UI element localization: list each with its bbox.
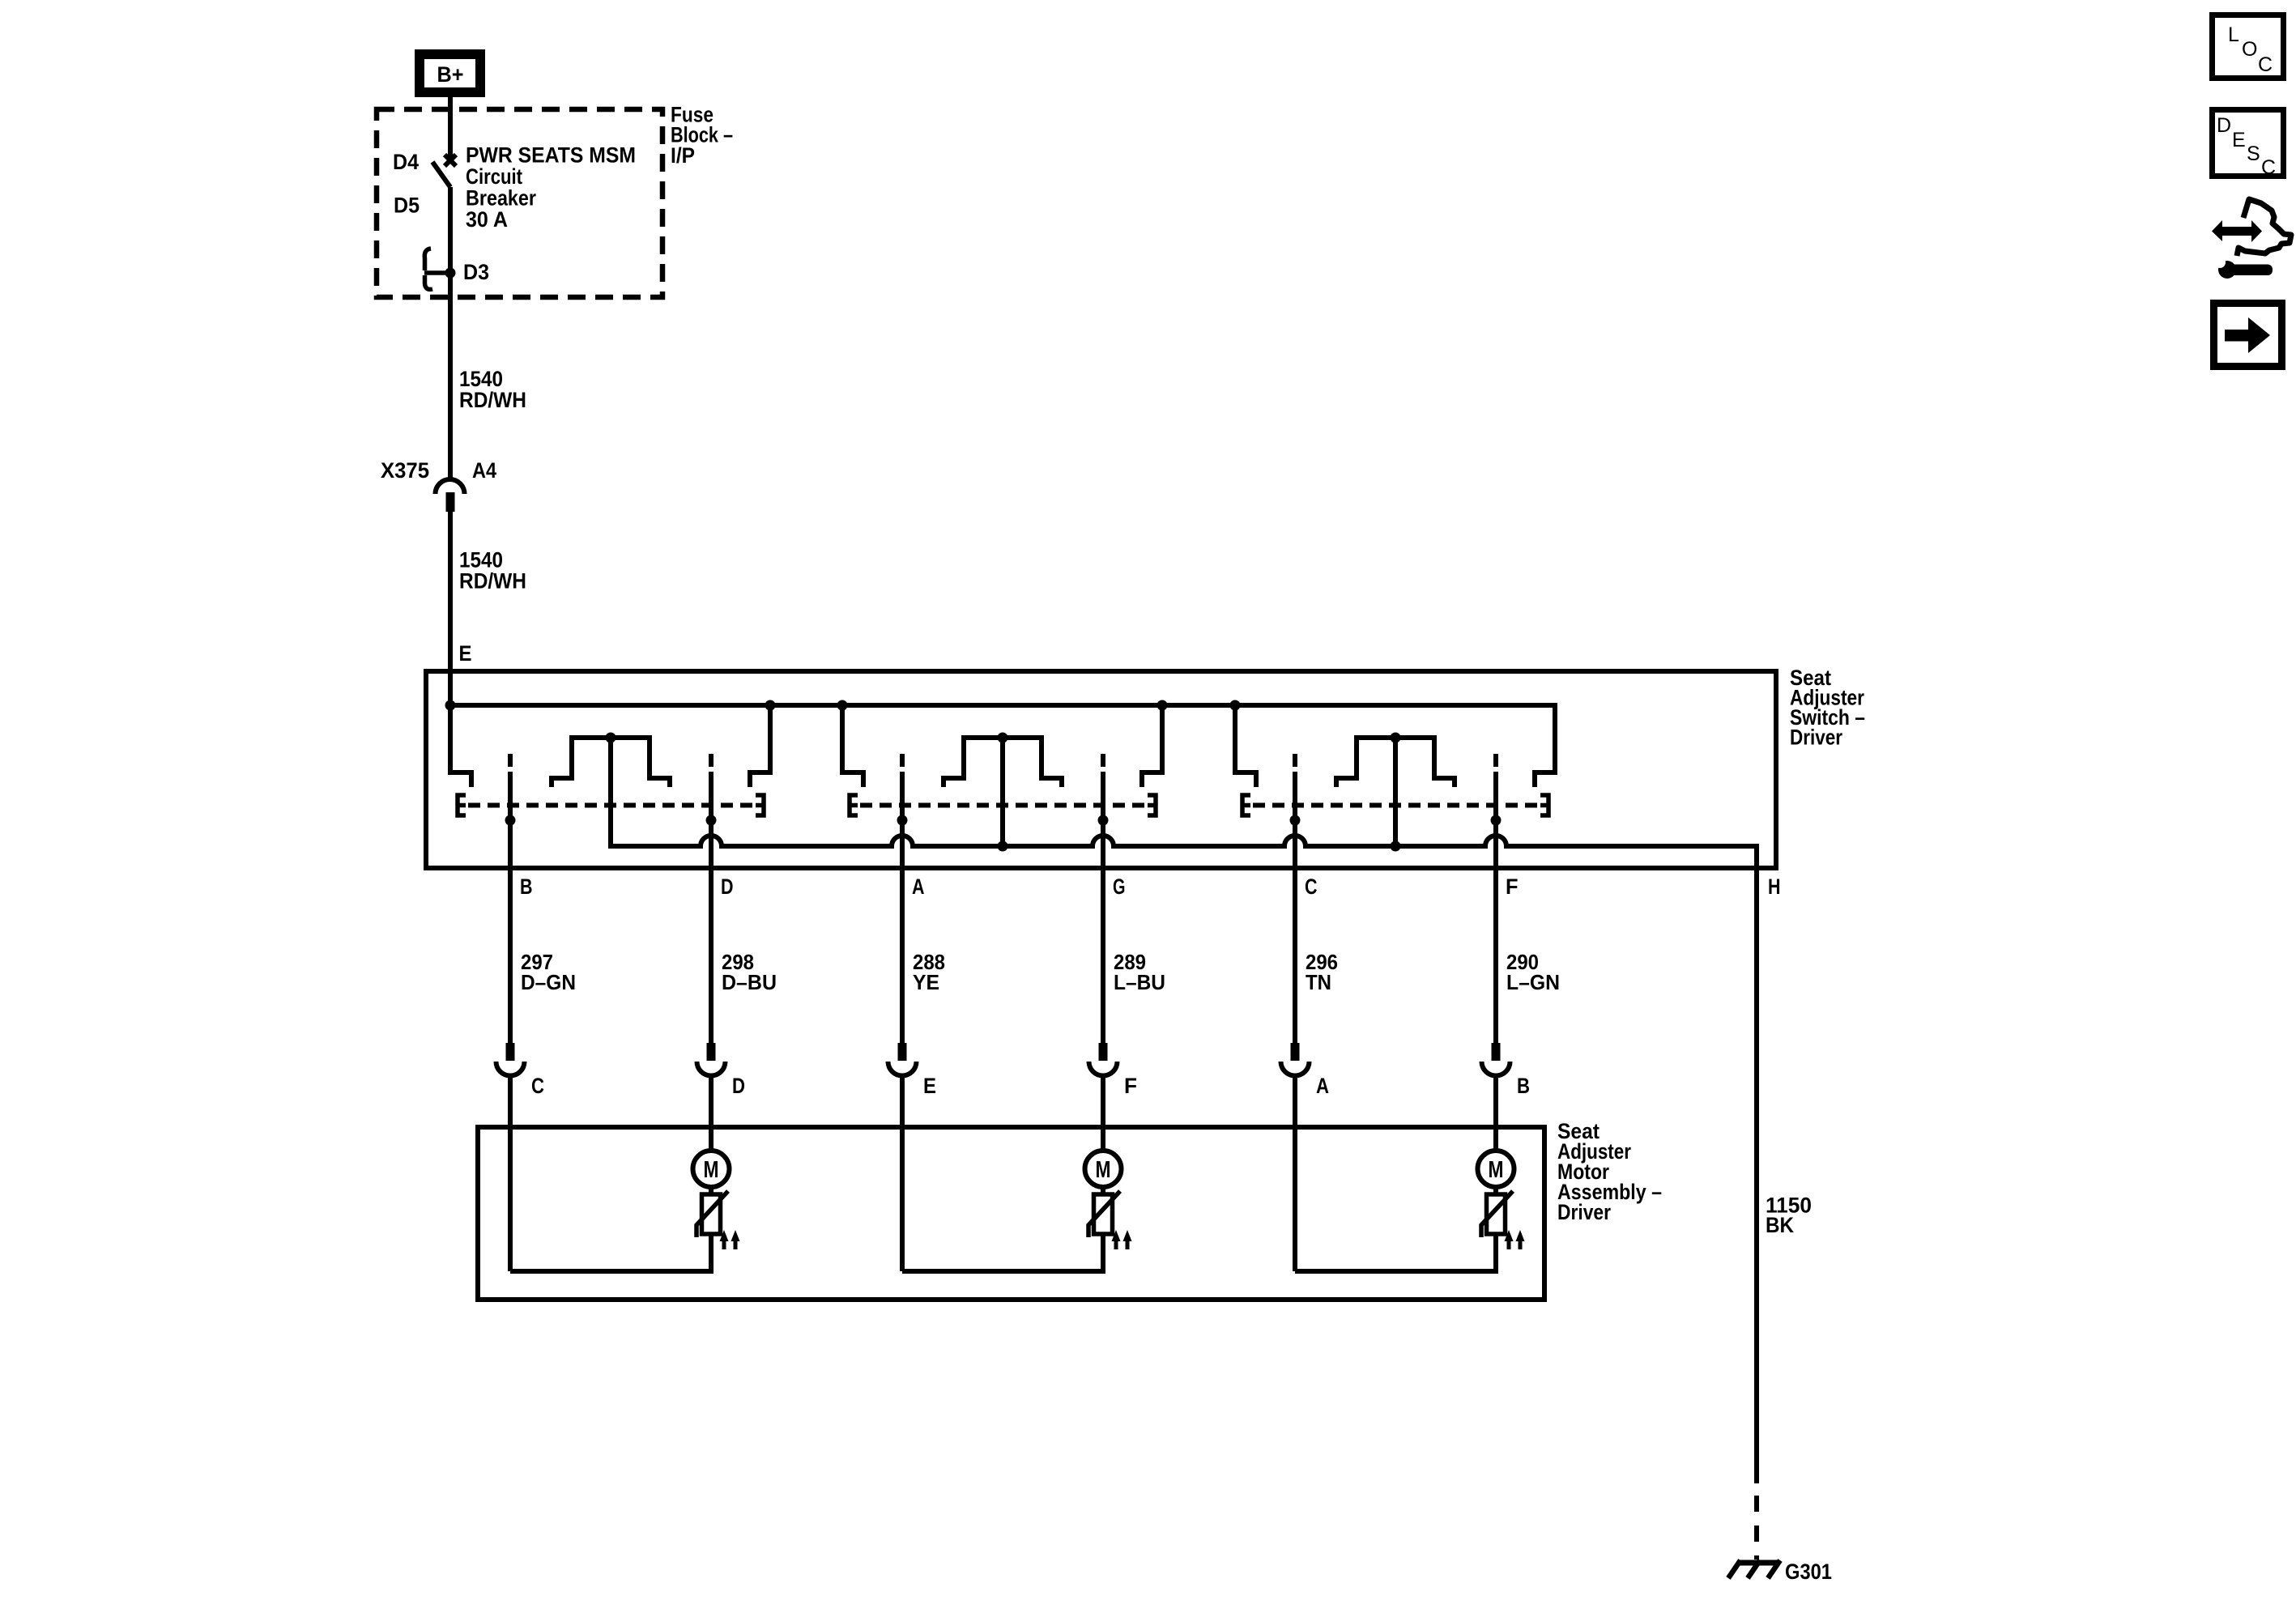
self-reset arrows motor 1 bbox=[722, 1239, 726, 1249]
svg-text:Breaker: Breaker bbox=[466, 186, 536, 211]
ground bus junction switch 2 bbox=[998, 841, 1008, 852]
switch 1 mech link bracket left bbox=[458, 795, 466, 815]
motor M3 bbox=[1478, 1151, 1514, 1187]
motor 1 feed wires bbox=[508, 1076, 513, 1272]
wire label 1540 RD/WH upper bbox=[459, 367, 526, 412]
seat adjuster switch box bbox=[426, 671, 1776, 868]
switch 3 center wire to ground bus bbox=[1393, 738, 1398, 846]
svg-text:M: M bbox=[704, 1157, 719, 1183]
connector pin (motor F) bbox=[1099, 1043, 1108, 1061]
motor 3 feed wires bbox=[1293, 1076, 1297, 1272]
switch 2 left throw contact bbox=[840, 705, 845, 775]
svg-text:D: D bbox=[2217, 114, 2231, 137]
switch 1 right pole arm and output wire bbox=[709, 754, 714, 767]
svg-text:30 A: 30 A bbox=[466, 207, 508, 232]
switch 1 center wire to ground bus bbox=[608, 738, 613, 846]
svg-text:S: S bbox=[2247, 143, 2260, 165]
svg-text:G: G bbox=[1113, 874, 1126, 899]
switch 2 center wire to ground bus bbox=[1000, 738, 1005, 846]
self-reset arrows motor 3 bbox=[1507, 1239, 1511, 1249]
svg-text:Driver: Driver bbox=[1790, 726, 1842, 750]
switch 2 mech link bracket right bbox=[1148, 795, 1156, 815]
svg-text:O: O bbox=[2242, 38, 2257, 61]
switch 1 left pole arm and output wire bbox=[508, 754, 513, 767]
ground return bus with wire hops, to pin H bbox=[611, 738, 1757, 1483]
dashed wire to ground bbox=[1754, 1496, 1759, 1560]
switch 1 left throw contact bbox=[450, 772, 471, 787]
motor 2 return wire bbox=[902, 1234, 1103, 1271]
svg-text:TN: TN bbox=[1306, 970, 1331, 994]
switch 1 right throw contact bbox=[768, 705, 773, 775]
motor assembly label bbox=[1557, 1119, 1662, 1224]
switch label bbox=[1790, 666, 1865, 750]
switch 3 mech link bracket right bbox=[1540, 795, 1548, 815]
breaker labels bbox=[393, 143, 636, 285]
thermal protector motor 1 bbox=[702, 1194, 721, 1234]
svg-text:L: L bbox=[2228, 23, 2239, 46]
wire breaker to X375 bbox=[448, 187, 453, 479]
switch 2 mech link bracket left bbox=[850, 795, 858, 815]
switch 1 mech link (dashed) bbox=[468, 803, 753, 808]
ground G301 bbox=[1728, 1560, 1832, 1584]
svg-text:M: M bbox=[1096, 1157, 1111, 1183]
svg-text:RD/WH: RD/WH bbox=[459, 569, 526, 594]
svg-text:M: M bbox=[1489, 1157, 1504, 1183]
wire labels under switch bbox=[521, 950, 1560, 994]
self-reset arrows motor 2 bbox=[1114, 1239, 1118, 1249]
ground bus junction switch 3 bbox=[1391, 841, 1401, 852]
svg-text:C: C bbox=[531, 1074, 544, 1098]
svg-text:L–GN: L–GN bbox=[1506, 970, 1560, 994]
node D3 junction bbox=[445, 268, 456, 279]
switch 3 mech link bracket left bbox=[1242, 795, 1250, 815]
switch 3 left throw contact bbox=[1233, 705, 1237, 775]
switch 3 right pole arm and output wire bbox=[1493, 754, 1498, 767]
icon LOC box bbox=[2213, 15, 2284, 79]
icon forward arrow box bbox=[2214, 304, 2282, 367]
switch 2 center feed pedestal bbox=[944, 738, 1062, 787]
svg-text:D3: D3 bbox=[463, 260, 489, 284]
motor 3 return wire bbox=[1295, 1234, 1496, 1271]
svg-text:F: F bbox=[1506, 874, 1519, 899]
svg-text:A: A bbox=[1316, 1074, 1329, 1098]
svg-text:D5: D5 bbox=[394, 194, 420, 218]
connector pin (motor B) bbox=[1492, 1043, 1501, 1061]
switch 3 center feed pedestal bbox=[1336, 738, 1455, 787]
svg-text:G301: G301 bbox=[1785, 1560, 1832, 1584]
svg-text:Driver: Driver bbox=[1557, 1200, 1611, 1224]
switch 1 mech link bracket right bbox=[756, 795, 764, 815]
connector pin (motor D) bbox=[707, 1043, 716, 1061]
svg-text:D–GN: D–GN bbox=[521, 970, 576, 994]
svg-text:A: A bbox=[912, 874, 925, 899]
svg-text:D: D bbox=[721, 874, 734, 899]
svg-text:C: C bbox=[2261, 156, 2276, 179]
connector pin (motor A) bbox=[1291, 1043, 1300, 1061]
svg-text:D–BU: D–BU bbox=[722, 970, 777, 994]
wire label 1540 RD/WH lower bbox=[459, 548, 526, 594]
svg-text:E: E bbox=[2232, 129, 2246, 151]
wire X375 to switch, also left throw drop of switch 1 bbox=[448, 512, 453, 775]
switch 3 mech link (dashed) bbox=[1253, 803, 1538, 808]
switch pin letters bbox=[520, 874, 1781, 899]
motor M1 bbox=[693, 1151, 730, 1187]
switch 2 right throw contact bbox=[1160, 705, 1165, 775]
fuse block box bbox=[377, 109, 662, 297]
motor 2 feed wires bbox=[900, 1076, 905, 1272]
motor 1 return wire bbox=[510, 1234, 711, 1271]
B+ bus inside switch bbox=[450, 703, 1555, 708]
power symbol B+ bbox=[420, 54, 480, 92]
svg-text:B: B bbox=[520, 874, 533, 899]
wire 1150 BK label bbox=[1766, 1194, 1812, 1238]
svg-text:PWR SEATS MSM: PWR SEATS MSM bbox=[466, 143, 636, 168]
motor M2 bbox=[1085, 1151, 1122, 1187]
svg-text:D: D bbox=[732, 1074, 745, 1098]
fuse block label bbox=[671, 103, 733, 168]
wire B+ to breaker bbox=[448, 97, 453, 160]
thermal protector motor 2 bbox=[1094, 1194, 1113, 1234]
switch 1 center feed pedestal bbox=[552, 738, 670, 787]
svg-text:D4: D4 bbox=[393, 150, 419, 174]
svg-text:E: E bbox=[459, 641, 472, 666]
switch 2 right pole arm and output wire bbox=[1101, 754, 1105, 767]
switch 2 left pole arm and output wire bbox=[900, 754, 905, 767]
svg-text:B+: B+ bbox=[437, 62, 464, 87]
svg-text:I/P: I/P bbox=[671, 143, 695, 168]
wire M to thermal protector bbox=[1493, 1188, 1498, 1196]
connector pin (motor E) bbox=[898, 1043, 907, 1061]
svg-text:BK: BK bbox=[1766, 1213, 1794, 1237]
switch 3 right throw contact bbox=[1535, 703, 1555, 787]
switch 2 mech link (dashed) bbox=[860, 803, 1145, 808]
svg-text:B: B bbox=[1517, 1074, 1530, 1098]
icon DESC box bbox=[2213, 110, 2284, 180]
svg-text:YE: YE bbox=[913, 970, 939, 994]
svg-text:F: F bbox=[1124, 1074, 1137, 1098]
svg-text:H: H bbox=[1768, 874, 1781, 899]
seat adjuster motor assembly box bbox=[478, 1127, 1544, 1300]
thermal protector motor 3 bbox=[1487, 1194, 1506, 1234]
svg-text:Circuit: Circuit bbox=[466, 164, 522, 189]
svg-text:C: C bbox=[1305, 874, 1318, 899]
circuit breaker PWR SEATS MSM 30 A bbox=[424, 155, 456, 289]
svg-text:C: C bbox=[2258, 53, 2273, 76]
wire M to thermal protector bbox=[1101, 1188, 1105, 1196]
switch 3 left pole arm and output wire bbox=[1293, 754, 1297, 767]
svg-text:A4: A4 bbox=[472, 458, 496, 483]
wire M to thermal protector bbox=[709, 1188, 714, 1196]
connector pin (motor C) bbox=[506, 1043, 515, 1061]
icon adjust/repair pictogram bbox=[2212, 199, 2291, 279]
svg-text:E: E bbox=[923, 1074, 936, 1098]
bus junction nodes bbox=[445, 700, 1241, 711]
svg-text:X375: X375 bbox=[381, 458, 429, 483]
svg-text:RD/WH: RD/WH bbox=[459, 388, 526, 412]
svg-text:L–BU: L–BU bbox=[1114, 970, 1165, 994]
connector X375 pin A4 bbox=[381, 458, 496, 512]
